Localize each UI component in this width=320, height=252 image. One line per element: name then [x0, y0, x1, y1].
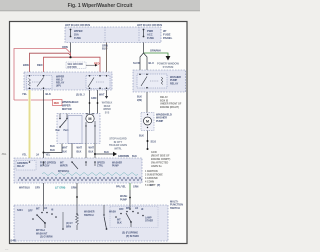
- fuse F2: [143, 30, 145, 37]
- arrow from label to RED wire: [86, 64, 95, 66]
- relay K1: [27, 76, 53, 89]
- svg-text:-YEL: -YEL: [1, 153, 7, 156]
- svg-text:REAR: REAR: [104, 105, 111, 108]
- fuse panel box (I/P fuse panel): [65, 27, 161, 43]
- governor relay sub-box: [16, 161, 36, 171]
- svg-text:GRN/BRN: GRN/BRN: [118, 155, 129, 158]
- svg-text:HI: HI: [51, 210, 54, 212]
- wire GRN from box A: [129, 183, 131, 190]
- svg-text:LAMP: LAMP: [145, 217, 152, 220]
- svg-text:ENGINE (RIGHT): ENGINE (RIGHT): [160, 106, 179, 109]
- svg-text:WHT/BLK: WHT/BLK: [102, 103, 113, 105]
- junction node S: [43, 152, 45, 154]
- svg-text:SLVR: SLVR: [133, 61, 140, 65]
- svg-text:BLK: BLK: [132, 155, 137, 158]
- splice node on motor ground wire: [94, 153, 96, 155]
- svg-text:WHT: WHT: [99, 94, 105, 97]
- svg-text:WHT/BLU: WHT/BLU: [19, 187, 30, 190]
- svg-text:HOT IN ACC OR RUN: HOT IN ACC OR RUN: [137, 24, 162, 27]
- wire SLVR down to washer relay: [140, 53, 144, 74]
- wire relay K3 to washer pump: [146, 92, 148, 113]
- red wire to relay K1 pin A: [30, 53, 71, 75]
- arrow to trailer harness: [113, 152, 117, 156]
- svg-text:BLK: BLK: [117, 223, 122, 225]
- svg-text:BRN: BRN: [66, 226, 71, 228]
- svg-text:(S) (F) SPRING: (S) (F) SPRING: [122, 233, 138, 235]
- svg-text:LO: LO: [44, 208, 47, 210]
- washer switch sub-box: [110, 207, 158, 228]
- svg-text:INT: INT: [126, 208, 130, 210]
- svg-text:MOTOR: MOTOR: [62, 107, 72, 111]
- svg-text:WIPER: WIPER: [103, 109, 111, 111]
- diagram page border: [10, 22, 188, 244]
- svg-text:(I/P): (I/P): [56, 85, 61, 88]
- wires box A to box B: [43, 183, 45, 205]
- svg-text:BLK: BLK: [139, 135, 144, 138]
- label RED (motor feed): [53, 100, 63, 106]
- wires below motor box to switch: [71, 144, 73, 159]
- svg-text:BLK: BLK: [62, 151, 67, 154]
- svg-text:OFF: OFF: [119, 209, 124, 211]
- svg-text:GRN/BRN: GRN/BRN: [17, 163, 28, 165]
- svg-text:BLK: BLK: [50, 145, 55, 148]
- wire from fuse panel down to relay K2: [106, 43, 108, 76]
- relay K2: [86, 76, 110, 89]
- wiper motor box: [57, 114, 100, 144]
- svg-text:2(M): 2(M): [137, 99, 142, 102]
- svg-text:CTRL: CTRL: [97, 166, 104, 168]
- svg-text:B401: B401: [11, 240, 18, 243]
- svg-text:WASH INT: WASH INT: [36, 232, 48, 235]
- interval control wavy line: [42, 173, 138, 176]
- svg-text:FUSE: FUSE: [74, 36, 81, 40]
- svg-text:SPEED: SPEED: [97, 163, 105, 165]
- svg-text:GRN: GRN: [133, 186, 139, 189]
- wire K2 to motor (BLK/PNK): [97, 90, 99, 114]
- svg-text:GRN: GRN: [71, 187, 77, 190]
- interval resistor in switch: [76, 214, 79, 225]
- switch contacts inside: [43, 161, 45, 163]
- washer pump relay box: [133, 70, 186, 92]
- svg-text:PANEL: PANEL: [163, 36, 173, 40]
- splice node S110: [147, 140, 149, 142]
- ground wire from pump: [147, 131, 149, 150]
- svg-text:BLK: BLK: [50, 149, 55, 152]
- svg-text:W/TRL: W/TRL: [114, 147, 122, 150]
- junction node at fuse output: [69, 56, 71, 58]
- svg-text:JA: JA: [36, 154, 39, 157]
- svg-text:FUSE (SPEED): FUSE (SPEED): [40, 163, 56, 165]
- fuse F1 WIPER 25A: [70, 30, 72, 37]
- svg-text:RED: RED: [37, 63, 43, 67]
- svg-text:(2) BL 2: (2) BL 2: [76, 94, 85, 97]
- svg-text:25A: 25A: [74, 33, 79, 37]
- wiper hi-lo relay box: [24, 72, 112, 90]
- wire GRN/WH to power window system: [144, 53, 169, 56]
- wire ORN from fuse F1 down to node: [70, 43, 72, 58]
- svg-text:WIPER: WIPER: [60, 166, 68, 168]
- svg-text:INT: INT: [117, 220, 121, 222]
- svg-text:HI: HI: [141, 209, 144, 211]
- motor M1: [86, 114, 94, 122]
- svg-text:RELAY: RELAY: [17, 165, 25, 168]
- svg-text:WHT: WHT: [62, 147, 68, 150]
- svg-text:INT BLA: INT BLA: [36, 229, 45, 232]
- svg-text:GRY: GRY: [35, 187, 40, 190]
- svg-text:WHT: WHT: [77, 147, 83, 150]
- svg-text:ACC: ACC: [147, 33, 153, 37]
- svg-text:S204: S204: [17, 209, 23, 212]
- wire elbow to motor pin: [44, 144, 63, 153]
- svg-text:BLK: BLK: [77, 151, 82, 154]
- fuse panel divider: [138, 27, 140, 43]
- svg-text:GRN: GRN: [91, 97, 97, 100]
- svg-text:INT: INT: [36, 209, 40, 211]
- svg-text:SYS: SYS: [105, 112, 110, 114]
- svg-text:WASH: WASH: [109, 211, 116, 214]
- svg-text:PWR: PWR: [147, 29, 153, 33]
- title bar: [0, 0, 200, 11]
- svg-text:WASHER: WASHER: [112, 162, 122, 165]
- multi-function switch box: [14, 205, 168, 241]
- svg-text:WIPER: WIPER: [62, 104, 71, 108]
- washer switch rotary contacts: [115, 216, 117, 218]
- washer switch contact: [103, 205, 105, 215]
- svg-text:ORN/WH: ORN/WH: [150, 49, 161, 53]
- svg-text:PUMP: PUMP: [120, 198, 127, 201]
- svg-text:YEL: YEL: [46, 154, 51, 157]
- svg-text:HARN Su: HARN Su: [151, 165, 162, 168]
- wire YEL from K1 down to switch: [28, 90, 31, 158]
- svg-text:WHT: WHT: [89, 147, 95, 150]
- svg-text:INTERVAL: INTERVAL: [58, 170, 70, 173]
- svg-text:DISTRIB: DISTRIB: [68, 67, 78, 69]
- wire from fuse F2 down: [143, 43, 145, 54]
- connector label box: [66, 62, 86, 69]
- svg-text:WIPER: WIPER: [74, 29, 83, 33]
- svg-text:PUMP: PUMP: [112, 166, 119, 168]
- wire to stop hazard arrow: [95, 153, 113, 155]
- svg-text:OTHER: OTHER: [145, 221, 153, 223]
- svg-text:M: M: [88, 117, 91, 121]
- svg-text:PUMP: PUMP: [156, 120, 164, 123]
- svg-text:SWITCH: SWITCH: [84, 214, 94, 217]
- svg-text:INT GOV: INT GOV: [40, 166, 50, 168]
- ground G100: [147, 148, 149, 150]
- svg-text:SWITCH: SWITCH: [170, 207, 180, 210]
- red wire bottom run to wiper motor: [14, 99, 53, 101]
- wiper switch rotary contacts: [43, 205, 45, 211]
- svg-text:Fig. 1 Wiper/Washer Circuit: Fig. 1 Wiper/Washer Circuit: [68, 3, 133, 9]
- svg-text:INT: INT: [60, 163, 64, 165]
- wire BLU down to washer relay: [144, 53, 148, 74]
- svg-text:Park: Park: [64, 130, 70, 132]
- svg-text:RED: RED: [54, 102, 59, 105]
- page background: [0, 0, 200, 252]
- svg-text:.....: .....: [5, 248, 9, 251]
- svg-text:LO: LO: [135, 208, 138, 210]
- svg-text:BLK: BLK: [46, 92, 51, 96]
- svg-text:FUSE: FUSE: [147, 36, 154, 40]
- resistor ladder: [18, 177, 142, 181]
- svg-text:(P) IN PARK: (P) IN PARK: [126, 235, 139, 238]
- svg-text:M: M: [146, 120, 149, 124]
- svg-text:RELAY: RELAY: [170, 82, 179, 85]
- svg-text:(P): (P): [157, 184, 160, 187]
- arrow to power window system: [166, 56, 171, 61]
- motor gear housing: [68, 116, 82, 144]
- svg-text:S110: S110: [151, 140, 157, 143]
- svg-text:OFF: OFF: [28, 211, 33, 213]
- park switch contacts: [59, 118, 61, 120]
- svg-text:BRN: BRN: [23, 63, 29, 67]
- svg-text:SYSTEM: SYSTEM: [163, 65, 174, 69]
- svg-text:BLU: BLU: [102, 47, 107, 51]
- svg-text:(2) GY/BRN: (2) GY/BRN: [40, 237, 53, 239]
- svg-text:BLK: BLK: [89, 151, 94, 154]
- washer pump motor M2: [144, 117, 152, 125]
- wire K2 to motor (GRN): [89, 90, 91, 114]
- svg-text:Run: Run: [56, 130, 61, 132]
- svg-text:SEE GROUND: SEE GROUND: [68, 64, 84, 66]
- svg-text:(2) GY: (2) GY: [66, 223, 73, 225]
- wiper switch resistor box: [14, 158, 142, 183]
- svg-text:YEL: YEL: [22, 92, 27, 96]
- svg-text:(LT GRN): (LT GRN): [55, 187, 66, 190]
- red wire to relay K1 pin B and K2: [44, 57, 101, 75]
- svg-text:PPL/YEL: PPL/YEL: [116, 186, 127, 189]
- svg-text:BLU: BLU: [149, 61, 154, 65]
- washer pump box: [141, 113, 154, 131]
- red wire loop outer (to wiper motor): [14, 49, 71, 101]
- relay K3: [137, 74, 167, 88]
- svg-text:YEL: YEL: [22, 154, 27, 157]
- svg-text:BLK: BLK: [104, 151, 109, 154]
- wire K2 right pin down (to rear system arrow): [106, 90, 108, 97]
- wire BLK from K1 down to switch: [43, 90, 45, 158]
- svg-text:WINDSHIELD: WINDSHIELD: [62, 100, 79, 104]
- fuse panel divider 2: [104, 27, 106, 43]
- svg-text:HOT IN ACC OR RUN: HOT IN ACC OR RUN: [65, 24, 90, 27]
